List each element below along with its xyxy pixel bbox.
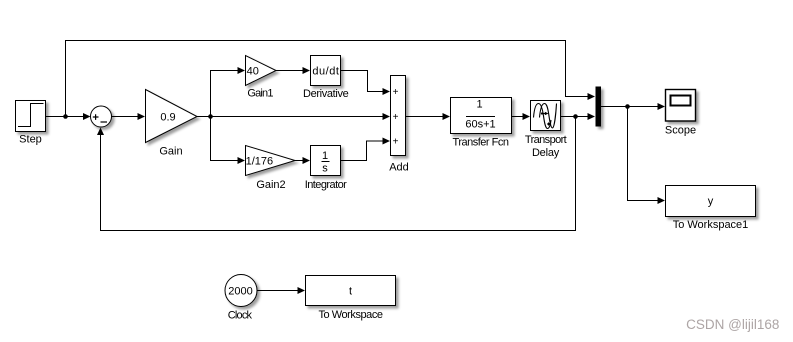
svg-text:Transfer Fcn: Transfer Fcn: [453, 136, 509, 148]
svg-text:Transport: Transport: [525, 134, 567, 146]
svg-text:1: 1: [322, 150, 328, 162]
svg-text:Delay: Delay: [532, 147, 560, 159]
svg-text:CSDN @lijil168: CSDN @lijil168: [686, 317, 779, 332]
svg-text:To Workspace: To Workspace: [318, 309, 382, 321]
svg-text:2000: 2000: [228, 286, 252, 298]
svg-text:Step: Step: [19, 134, 42, 146]
svg-text:To Workspace1: To Workspace1: [673, 219, 749, 231]
svg-text:Gain2: Gain2: [256, 179, 285, 191]
svg-text:1/176: 1/176: [246, 156, 274, 168]
svg-text:Derivative: Derivative: [303, 88, 349, 100]
svg-text:+: +: [393, 87, 399, 98]
svg-text:Gain: Gain: [159, 146, 182, 158]
svg-text:60s+1: 60s+1: [465, 119, 495, 131]
svg-text:Gain1: Gain1: [247, 88, 273, 100]
svg-text:s: s: [322, 162, 328, 174]
svg-text:Add: Add: [389, 162, 409, 174]
svg-text:1: 1: [476, 99, 482, 111]
svg-text:Scope: Scope: [665, 125, 696, 137]
svg-text:y: y: [708, 196, 714, 208]
svg-text:Clock: Clock: [228, 310, 253, 322]
svg-text:0.9: 0.9: [160, 111, 175, 123]
svg-text:+: +: [393, 137, 399, 148]
svg-text:du/dt: du/dt: [312, 66, 339, 78]
svg-text:40: 40: [247, 66, 259, 78]
svg-text:Integrator: Integrator: [305, 179, 347, 191]
svg-text:t: t: [349, 286, 352, 298]
svg-text:+: +: [393, 112, 399, 123]
